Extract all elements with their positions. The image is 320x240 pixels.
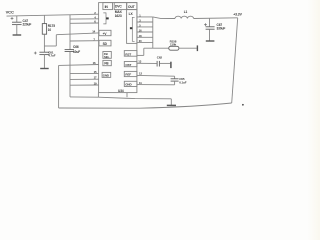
node VCC label — [6, 10, 14, 15]
svg-text:1623: 1623 — [115, 14, 122, 18]
pin number 12 — [139, 72, 142, 76]
svg-text:C62: C62 — [157, 55, 163, 59]
wire LX stub 6th — [137, 42, 153, 44]
pin box GND right — [124, 81, 137, 86]
capacitor C62 — [157, 55, 171, 66]
pin box SEL — [103, 52, 111, 60]
wire IC bottom stub — [126, 93, 128, 98]
svg-text:L1: L1 — [184, 10, 188, 14]
wire IN pin 4 — [70, 18, 99, 20]
svg-text:10uF: 10uF — [73, 50, 80, 54]
svg-text:LX: LX — [129, 12, 134, 16]
pin number 3 — [139, 19, 141, 23]
svg-text:IN: IN — [105, 5, 109, 9]
svg-text:+3.3V: +3.3V — [233, 12, 242, 16]
svg-text:GND: GND — [103, 74, 109, 78]
capacitor C67 — [204, 23, 225, 41]
wire R175 top lead — [43, 15, 45, 23]
svg-text:FB: FB — [104, 62, 109, 66]
pin number 11 — [139, 81, 142, 85]
pin box OUT — [127, 3, 137, 10]
pin number 6 — [94, 20, 96, 24]
inductor L1 — [175, 10, 194, 19]
bracket IN pins — [103, 13, 108, 24]
wire inductor to output — [194, 17, 238, 20]
bracket LX pins — [130, 17, 135, 41]
terminal bar (C62) — [170, 62, 172, 68]
pin box SD — [99, 40, 111, 46]
wire R175 bottom lead to node — [43, 34, 45, 46]
wire LX stub 18 — [137, 31, 153, 33]
svg-text:OUT: OUT — [128, 5, 135, 9]
pin number 19 — [94, 81, 97, 85]
svg-text:0.1uF: 0.1uF — [179, 81, 187, 85]
svg-text:SEL: SEL — [104, 55, 110, 59]
svg-text:4.7uF: 4.7uF — [48, 53, 56, 57]
svg-text:RST: RST — [125, 52, 131, 56]
wire pin 12 — [137, 74, 175, 77]
pin number 5 — [139, 24, 141, 28]
wire LX bus vertical — [152, 17, 154, 48]
ground (C47) — [13, 34, 22, 36]
ground (rail) — [167, 104, 176, 106]
wire pin 11 — [137, 84, 175, 86]
pin box LX — [127, 10, 137, 44]
wire LX stub 5 — [137, 26, 153, 28]
wire ground vertical x70 lower — [70, 52, 98, 97]
svg-text:OST: OST — [125, 63, 131, 67]
pin number 2 — [94, 11, 96, 15]
pin box FB — [103, 60, 111, 65]
svg-text:GND: GND — [125, 83, 132, 87]
pin number 18 — [139, 34, 142, 38]
IC U34 MAX1623 body — [99, 3, 137, 93]
pin number 15 — [94, 70, 97, 74]
capacitor C61 — [34, 46, 56, 68]
node +3.3V label — [233, 12, 242, 16]
pin box RST right — [124, 51, 137, 57]
wire C47 drop — [16, 16, 18, 22]
wire GND pin 17 — [70, 78, 99, 80]
capacitor C65 — [171, 76, 187, 85]
pin number 14 — [92, 29, 95, 33]
svg-text:C66: C66 — [73, 45, 79, 49]
capacitor C47 — [11, 17, 32, 35]
wire ground stem — [170, 99, 172, 105]
svg-text:220uF: 220uF — [23, 23, 32, 27]
wire pin 13 — [137, 62, 157, 64]
svg-text:10: 10 — [48, 28, 52, 32]
wire OUT sense step — [137, 48, 169, 55]
wire GND pin 15 — [70, 72, 99, 74]
speck — [242, 104, 244, 106]
pin number 7 — [93, 37, 95, 41]
wire SD pin 7 — [70, 40, 99, 42]
IC refdes U34 — [118, 89, 124, 93]
capacitor C66 — [65, 45, 81, 54]
ground (C61) — [40, 68, 49, 70]
terminal bar (R158) — [196, 45, 198, 51]
pin box IN — [103, 3, 113, 10]
pin number 16 — [93, 61, 96, 65]
wire LX stub 20 — [137, 36, 153, 38]
wire FB to bottom rail — [59, 65, 232, 108]
ground (C67) — [206, 40, 215, 42]
svg-text:VCC: VCC — [6, 10, 14, 15]
wire C67 drop — [209, 18, 211, 27]
pin number 1 — [139, 14, 141, 18]
wire step to pin 14 — [44, 33, 99, 46]
pin number 16 LX stub — [139, 29, 142, 33]
svg-text:110k: 110k — [170, 43, 177, 47]
wire LX stub 1 — [137, 16, 153, 18]
wire ground rail — [98, 97, 171, 99]
pin box REF right — [124, 71, 137, 76]
wire FB pin 16 — [59, 64, 99, 67]
svg-text:+V: +V — [103, 32, 108, 36]
svg-text:330uF: 330uF — [217, 27, 226, 31]
wire LX to inductor — [153, 17, 175, 19]
wire VCC rail — [7, 14, 99, 16]
wire GND pin 19 — [70, 84, 99, 86]
svg-text:DVC: DVC — [115, 4, 122, 8]
resistor R158 — [169, 40, 179, 51]
resistor R175 — [42, 24, 55, 35]
wire supply vertical bus x70 upper — [69, 15, 71, 50]
svg-text:U34: U34 — [118, 89, 124, 93]
pin box GND left — [102, 72, 111, 77]
pin box +V — [99, 30, 111, 36]
wire output right riser — [232, 18, 238, 103]
pin number 13 — [138, 60, 141, 64]
pin number 4 — [94, 15, 96, 19]
wire LX stub 3 — [137, 21, 153, 23]
svg-text:REF: REF — [125, 73, 131, 77]
pin box OUT right — [124, 62, 137, 67]
pin number 17 — [94, 76, 97, 80]
IC part label DVC MAX 1623 — [114, 3, 127, 19]
pin number 20 — [139, 39, 142, 43]
wire R158 to terminal — [179, 47, 197, 49]
svg-text:SD: SD — [103, 42, 108, 46]
wire IN pin 6 — [70, 22, 99, 24]
